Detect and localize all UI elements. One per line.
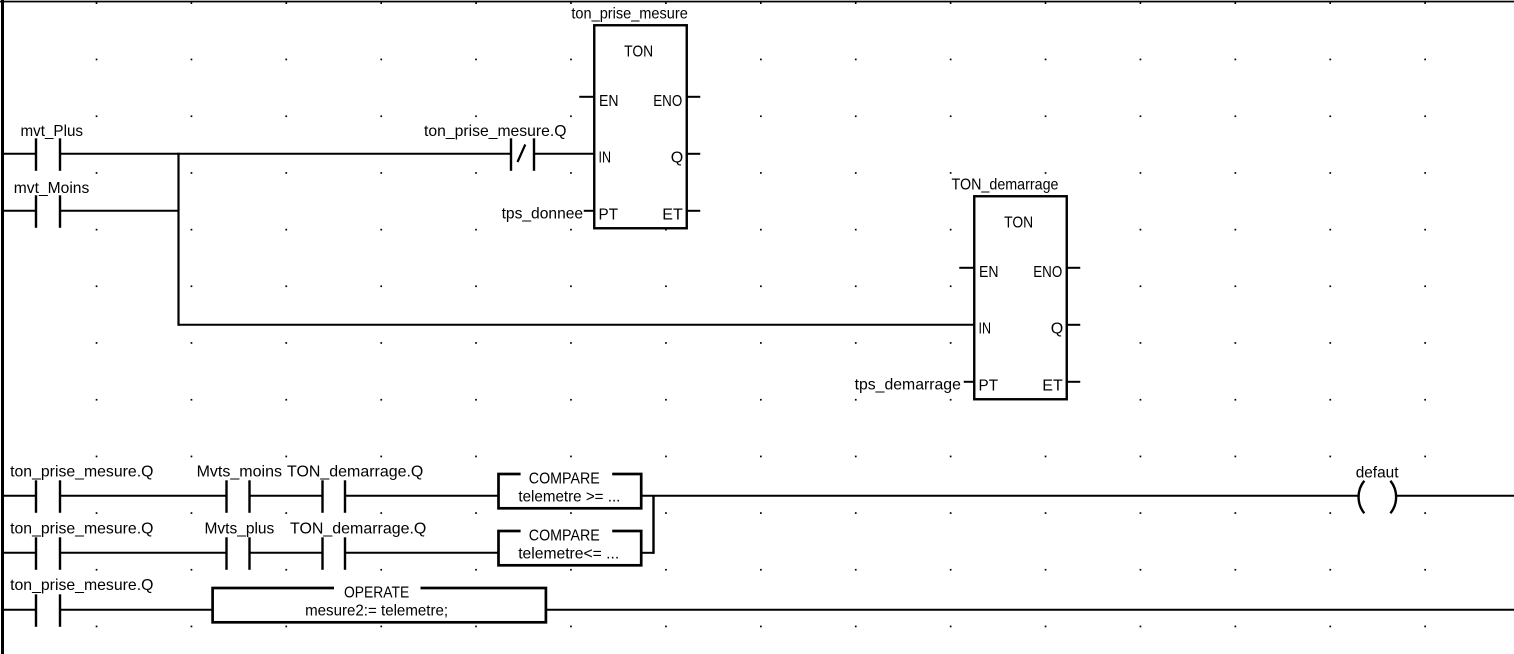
compare block COMPARE telemetre<= ...	[499, 524, 642, 566]
wire B3 to COMPARE2	[345, 552, 499, 554]
svg-text:ton_prise_mesure.Q: ton_prise_mesure.Q	[10, 464, 153, 481]
contact A3 TON_demarrage.Q	[287, 464, 423, 513]
svg-text:Mvts_plus: Mvts_plus	[205, 521, 275, 538]
svg-text:ENO: ENO	[1033, 264, 1062, 281]
svg-text:ton_prise_mesure.Q: ton_prise_mesure.Q	[10, 577, 153, 594]
timer U2 TON TON_demarrage	[855, 176, 1081, 399]
svg-text:ENO: ENO	[653, 93, 682, 110]
svg-text:TON_demarrage.Q: TON_demarrage.Q	[287, 464, 423, 481]
svg-text:telemetre >= ...: telemetre >= ...	[518, 488, 620, 505]
contact B2 Mvts_plus	[205, 521, 275, 570]
contact mvt_Plus	[21, 123, 84, 171]
svg-text:mvt_Plus: mvt_Plus	[21, 123, 84, 140]
contact A1 ton_prise_mesure.Q	[10, 464, 153, 513]
svg-text:ton_prise_mesure.Q: ton_prise_mesure.Q	[424, 123, 567, 140]
wire NC contact to TON1 IN	[534, 153, 594, 155]
wire rail to row A contact 1	[4, 495, 36, 497]
wire B1 to B2	[60, 552, 227, 554]
wire vertical branch junction	[177, 153, 179, 326]
svg-text:telemetre<= ...: telemetre<= ...	[518, 545, 619, 562]
svg-text:PT: PT	[979, 378, 999, 395]
svg-text:COMPARE: COMPARE	[529, 528, 600, 545]
svg-text:TON_demarrage.Q: TON_demarrage.Q	[290, 521, 426, 538]
contact C1 ton_prise_mesure.Q	[10, 577, 153, 627]
svg-text:ET: ET	[1042, 378, 1063, 395]
svg-text:ET: ET	[662, 207, 683, 224]
wire A3 to COMPARE1	[345, 495, 499, 497]
svg-text:Mvts_moins: Mvts_moins	[197, 464, 282, 481]
svg-text:Q: Q	[671, 150, 684, 167]
wire branch to TON2 IN	[179, 324, 975, 326]
wire COMPARE2 to junction	[641, 552, 654, 554]
timer U1 TON ton_prise_mesure	[502, 5, 701, 228]
contact mvt_Moins	[14, 180, 90, 228]
coil defaut	[1356, 465, 1399, 514]
svg-text:TON: TON	[624, 43, 653, 60]
svg-text:TON: TON	[1004, 214, 1033, 231]
wire rail to row C contact 1	[4, 609, 36, 611]
wire COMPARE1 to coil defaut	[641, 495, 1358, 497]
left power rail	[1, 0, 4, 654]
svg-text:defaut: defaut	[1356, 465, 1399, 482]
contact B1 ton_prise_mesure.Q	[10, 521, 153, 570]
wire B2 to B3	[250, 552, 323, 554]
svg-text:tps_demarrage: tps_demarrage	[855, 377, 961, 394]
wire A2 to A3	[250, 495, 323, 497]
svg-text:COMPARE: COMPARE	[529, 471, 600, 488]
contact A2 Mvts_moins	[197, 464, 282, 513]
wire C1 to OPERATE	[60, 609, 214, 611]
wire mvt_Moins to junction	[60, 210, 180, 212]
svg-text:EN: EN	[599, 93, 619, 110]
svg-text:Q: Q	[1051, 321, 1064, 338]
wire rail to contact mvt_Moins	[4, 210, 36, 212]
contact B3 TON_demarrage.Q	[290, 521, 426, 570]
wire coil defaut to right edge	[1397, 495, 1514, 497]
svg-text:IN: IN	[979, 321, 992, 338]
svg-text:ton_prise_mesure.Q: ton_prise_mesure.Q	[10, 521, 153, 538]
wire mvt_Plus to NC contact	[60, 153, 511, 155]
compare block COMPARE telemetre >= ...	[499, 467, 642, 509]
svg-text:PT: PT	[599, 207, 619, 224]
svg-text:tps_donnee: tps_donnee	[502, 206, 584, 223]
wire rail to contact mvt_Plus	[4, 153, 36, 155]
NC contact ton_prise_mesure.Q	[424, 123, 567, 171]
operate block OPERATE mesure2:= telemetre;	[213, 581, 546, 623]
svg-text:mesure2:= telemetre;: mesure2:= telemetre;	[305, 602, 448, 619]
wire rail to row B contact 1	[4, 552, 36, 554]
svg-text:ton_prise_mesure: ton_prise_mesure	[571, 5, 687, 22]
svg-text:mvt_Moins: mvt_Moins	[14, 180, 90, 197]
wire A1 to A2	[60, 495, 227, 497]
wire OR junction vertical	[652, 496, 654, 554]
svg-text:OPERATE: OPERATE	[344, 585, 409, 602]
svg-text:TON_demarrage: TON_demarrage	[952, 176, 1059, 193]
wire OPERATE to right edge	[546, 609, 1514, 611]
svg-text:IN: IN	[599, 150, 612, 167]
svg-text:EN: EN	[979, 264, 999, 281]
